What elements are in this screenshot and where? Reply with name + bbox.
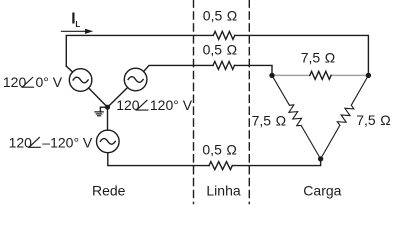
resistor 7,5 ohm delta top	[310, 71, 331, 79]
svg-text:120: 120	[9, 134, 33, 150]
sine symbol U3	[100, 139, 115, 145]
svg-text:L: L	[75, 20, 80, 29]
svg-text:–120° V: –120° V	[42, 134, 93, 150]
svg-text:120° V: 120° V	[150, 97, 193, 113]
wire neutral junction to source Vc	[107, 107, 109, 130]
dashed boundary Linha/Carga	[248, 0, 250, 204]
ground stub	[100, 107, 107, 112]
source U3 120&lt;-120 circle	[97, 130, 120, 153]
wire top: corner to line resistor	[66, 35, 213, 66]
svg-text:Ω: Ω	[227, 8, 237, 24]
resistor 0,5 ohm middle	[213, 61, 235, 69]
delta right resistor 7,5 diagonal wires	[321, 75, 369, 158]
resistor 7,5 ohm right diagonal	[337, 105, 354, 125]
svg-text:0,5: 0,5	[203, 42, 223, 58]
sine symbol U2	[128, 77, 143, 83]
svg-text:Rede: Rede	[92, 183, 126, 199]
svg-text:Ω: Ω	[276, 112, 286, 128]
node N junction dot	[105, 105, 110, 110]
current arrow IL	[62, 30, 87, 32]
resistor 7,5 ohm left diagonal	[289, 105, 302, 126]
grey wire of delta top resistor	[272, 74, 368, 76]
svg-text:7,5: 7,5	[252, 112, 272, 128]
node C dot	[318, 156, 323, 161]
wire middle to node A	[235, 65, 273, 75]
wire U2 to neutral junction	[108, 88, 128, 108]
svg-text:7,5: 7,5	[356, 112, 376, 128]
sine symbol U1	[73, 77, 88, 83]
svg-text:120: 120	[116, 97, 140, 113]
svg-text:120: 120	[3, 74, 27, 90]
arrowhead IL	[85, 29, 93, 34]
wire U1 to neutral junction	[89, 88, 108, 107]
node A dot	[269, 73, 274, 78]
source U2 120&lt;120 circle	[124, 68, 147, 91]
ground bars	[95, 112, 103, 116]
resistor 0,5 ohm bottom	[209, 162, 232, 170]
svg-text:Ω: Ω	[227, 42, 237, 58]
svg-text:Ω: Ω	[380, 112, 390, 128]
svg-text:Ω: Ω	[325, 49, 335, 65]
svg-text:0° V: 0° V	[36, 74, 63, 90]
svg-text:0,5: 0,5	[203, 8, 223, 24]
resistor 0,5 ohm top	[213, 31, 235, 39]
svg-text:7,5: 7,5	[301, 49, 321, 65]
wire U3 down to bottom line	[108, 153, 209, 166]
svg-text:0,5: 0,5	[202, 142, 222, 158]
wire top right segment to node B	[235, 35, 369, 75]
wire bottom to node C	[232, 159, 320, 166]
delta left resistor 7,5 diagonal wires	[272, 75, 321, 158]
node B dot	[366, 73, 371, 78]
wire source Vb to middle line	[144, 65, 213, 71]
dashed boundary Rede/Linha	[193, 0, 195, 204]
svg-text:Linha: Linha	[206, 183, 240, 199]
svg-text:Carga: Carga	[303, 183, 341, 199]
wire source Va to corner	[66, 66, 72, 72]
svg-text:Ω: Ω	[226, 142, 236, 158]
source U1 120&lt;0 circle	[69, 69, 92, 92]
